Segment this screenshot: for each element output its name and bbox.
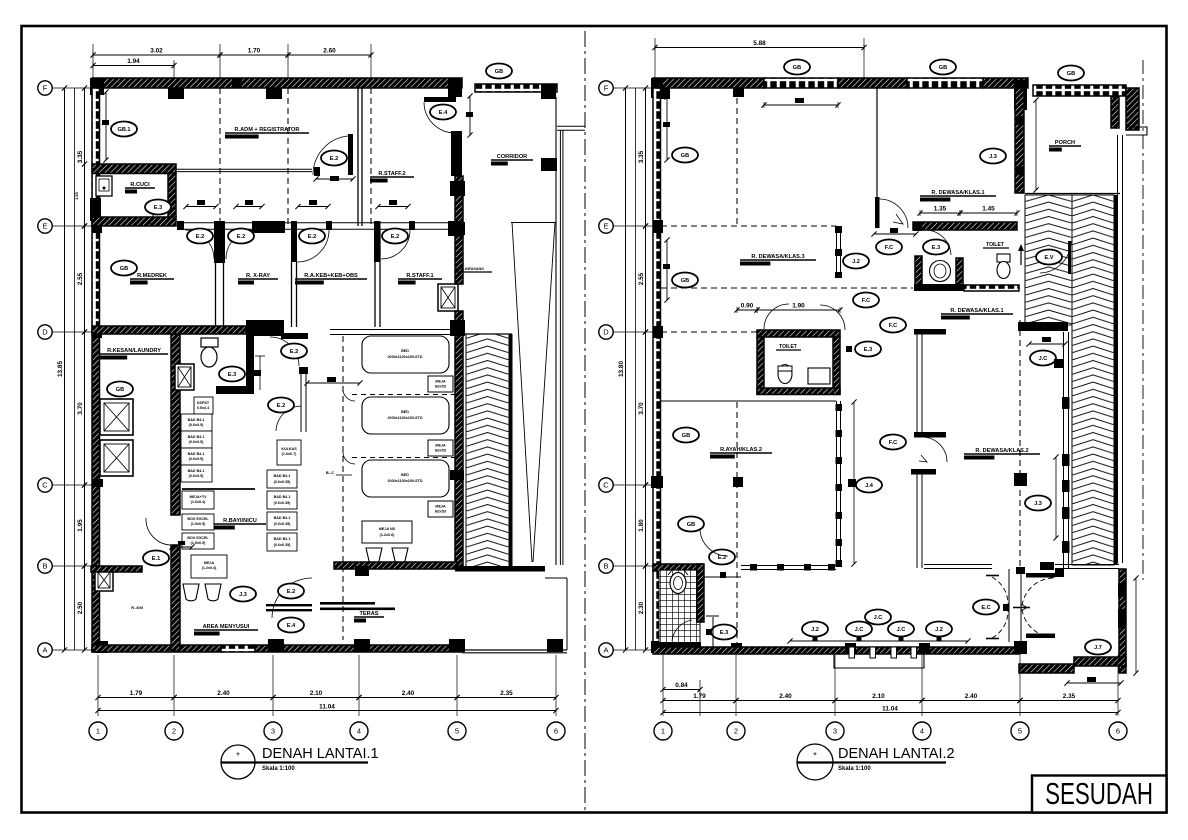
- svg-text:(0.6x0.5): (0.6x0.5): [189, 423, 205, 427]
- p2 dashed col 2: [736, 88, 738, 226]
- tag F.C: [880, 318, 906, 333]
- tag F.C: [853, 293, 879, 308]
- room label AREA MENYUSUI: [194, 624, 258, 636]
- room label R.STAFF.1: [398, 273, 442, 285]
- room label R. DEWASA-KLAS2: [964, 448, 1040, 460]
- svg-text:J.7: J.7: [1094, 645, 1102, 651]
- p2 bottom col 3: [919, 643, 930, 653]
- svg-text:2000x1100x200-STD: 2000x1100x200-STD: [387, 355, 422, 359]
- tag E.2: [299, 229, 325, 244]
- tag E.2: [268, 398, 294, 413]
- door arc hall: [820, 305, 845, 330]
- cabinet MEJA+TV: [182, 491, 214, 509]
- column: [355, 566, 369, 576]
- side table 2: [428, 440, 453, 456]
- p2 top wall win1: [764, 78, 838, 88]
- svg-text:J.C: J.C: [874, 615, 883, 621]
- tag J.C: [846, 622, 872, 637]
- tag J.4: [856, 478, 882, 493]
- WC right wall: [246, 332, 254, 392]
- partition block h: [750, 564, 757, 571]
- p2 bottom right wall low: [1019, 664, 1074, 673]
- svg-text:R.KESAN/LAUNDRY: R.KESAN/LAUNDRY: [107, 348, 161, 354]
- toilet2 bottom wall: [964, 285, 1019, 291]
- porch step outline: [834, 654, 924, 668]
- column corridor right: [541, 158, 557, 171]
- jamb: [177, 221, 184, 230]
- svg-text:2000x1100x200-STD: 2000x1100x200-STD: [387, 479, 422, 483]
- svg-text:(0.6x0.5): (0.6x0.5): [189, 440, 205, 444]
- svg-text:B: B: [603, 562, 608, 571]
- svg-text:2.60: 2.60: [323, 48, 336, 55]
- tag GB: [784, 60, 810, 75]
- leader row F: [52, 87, 92, 89]
- svg-text:GB.1: GB.1: [117, 127, 130, 133]
- tag E.V: [1036, 250, 1062, 265]
- svg-text:2.35: 2.35: [500, 690, 513, 697]
- tag E.2: [709, 550, 735, 565]
- toilet3 right wall: [833, 337, 840, 394]
- row B stub wall: [91, 566, 142, 572]
- svg-text:0.90: 0.90: [741, 303, 754, 310]
- leader row D: [52, 331, 92, 333]
- mid partition cap: [299, 367, 308, 374]
- svg-text:(1.5x0.5): (1.5x0.5): [191, 541, 207, 545]
- svg-text:R. DEWASA/KLAS.3: R. DEWASA/KLAS.3: [751, 254, 804, 260]
- jamb partition1: [214, 221, 225, 232]
- svg-text:D: D: [42, 328, 48, 337]
- elevator shaft 1: [100, 399, 133, 435]
- curtain dashed 1: [352, 394, 455, 396]
- stair bottom wall: [455, 566, 545, 572]
- svg-text:E.2: E.2: [277, 403, 285, 409]
- p2 dashed row D: [661, 331, 757, 333]
- p2 dim ext: [662, 655, 664, 716]
- basin 1: [183, 584, 199, 601]
- curtain arc 1: [343, 389, 355, 401]
- door between chevron panels: [1040, 241, 1071, 274]
- dimension p2 bottom 1.79: [660, 693, 738, 703]
- svg-text:3.02: 3.02: [150, 48, 163, 55]
- cabinet DSPST: [194, 397, 213, 414]
- dim right of E.4: [466, 93, 473, 137]
- partition block h: [777, 564, 784, 571]
- grid bubble D: [38, 325, 52, 339]
- tag J.3: [980, 149, 1006, 164]
- tag F.C: [876, 240, 902, 255]
- svg-text:J.2: J.2: [811, 627, 819, 633]
- p2 bottom right wall high: [1074, 657, 1126, 666]
- svg-text:B2x53: B2x53: [435, 385, 446, 389]
- dimension p2 dim 3.70: [638, 329, 648, 487]
- svg-text:GB: GB: [682, 433, 690, 439]
- tag E.C: [973, 600, 999, 615]
- vert dim right 2.05: [1133, 575, 1138, 675]
- ramp top line: [511, 222, 556, 224]
- room label R.BAYI/NICU: [214, 518, 266, 530]
- tag GB: [930, 60, 956, 75]
- p2 corner col: [651, 78, 663, 98]
- tag GB: [486, 64, 512, 79]
- p2 col b: [733, 88, 744, 97]
- dim extension: [97, 655, 99, 716]
- svg-text:F: F: [604, 84, 609, 93]
- svg-text:GB: GB: [939, 65, 947, 71]
- svg-text:13.85: 13.85: [57, 361, 64, 377]
- left wall column row E: [92, 220, 102, 233]
- svg-text:R.STAFF.2: R.STAFF.2: [378, 171, 405, 177]
- door arc row B: [146, 518, 171, 545]
- vertical dim GB room p2: [663, 94, 670, 162]
- p2 dashed col5: [1019, 320, 1021, 568]
- porch corner block: [1126, 88, 1139, 130]
- svg-text:R.CUCI: R.CUCI: [130, 182, 150, 188]
- door jamb block right: [1055, 569, 1064, 577]
- svg-text:BAD B4.1: BAD B4.1: [274, 537, 291, 541]
- side table 3: [428, 501, 453, 517]
- svg-text:J.2: J.2: [935, 627, 943, 633]
- svg-text:B.-C: B.-C: [326, 470, 334, 475]
- leader row A: [52, 649, 92, 651]
- svg-text:1.90: 1.90: [792, 303, 805, 310]
- svg-text:J.3: J.3: [989, 154, 997, 160]
- p2 leader B: [613, 565, 653, 567]
- svg-text:BED: BED: [401, 349, 409, 353]
- grid bubble E: [38, 219, 52, 233]
- svg-text:DENAH LANTAI.2: DENAH LANTAI.2: [838, 746, 955, 762]
- grid bubble 2: [165, 722, 183, 740]
- svg-text:R.-KM: R.-KM: [131, 605, 143, 610]
- svg-text:R.ADM + REGISTRATOR: R.ADM + REGISTRATOR: [235, 127, 300, 133]
- svg-text:C: C: [603, 481, 609, 490]
- svg-text:1.95: 1.95: [77, 519, 84, 532]
- grid bubble 4: [350, 722, 368, 740]
- p2 wall x917 upper: [916, 333, 918, 432]
- svg-text:2: 2: [172, 727, 176, 736]
- svg-text:(0.6x0.35): (0.6x0.35): [274, 480, 292, 484]
- p2 dim line mid: [635, 88, 637, 650]
- svg-text:1.45: 1.45: [982, 206, 995, 213]
- grid bubble 2: [727, 722, 745, 740]
- tag E.1: [143, 551, 169, 566]
- p2 dashed row E: [661, 225, 836, 227]
- p2 partition y566: [741, 565, 836, 567]
- dim line mid left: [74, 88, 76, 650]
- cabinet BAD B4.4: [181, 465, 212, 482]
- nurse table MEJA NS: [362, 521, 412, 543]
- room label R.MEDREK: [130, 273, 174, 285]
- dim extension: [173, 655, 175, 716]
- basin toilet1: [930, 261, 951, 282]
- svg-text:13.80: 13.80: [618, 361, 625, 377]
- svg-text:R. X-RAY: R. X-RAY: [246, 273, 270, 279]
- svg-text:2.55: 2.55: [77, 272, 84, 285]
- exit arrow right wall: [1018, 244, 1024, 265]
- p2 room top line: [661, 400, 836, 402]
- partition block: [836, 539, 843, 546]
- bottom vent band: [221, 645, 255, 652]
- p2 partition x836: [836, 401, 838, 567]
- svg-text:PORCH: PORCH: [1055, 140, 1075, 146]
- p2 dashed col 2 lower: [736, 402, 738, 647]
- elevator shaft 2: [100, 440, 133, 476]
- dimension left dim 3.70: [77, 329, 87, 487]
- WC toilet3: [778, 365, 792, 384]
- svg-text:+: +: [236, 751, 240, 758]
- svg-text:TOILET: TOILET: [779, 344, 797, 350]
- svg-text:F: F: [43, 84, 48, 93]
- dimension p2 dim 1.80: [638, 482, 648, 568]
- hinge block: [846, 346, 852, 352]
- room label R.KESAN/LAUNDRY: [100, 348, 168, 360]
- tag E.3: [855, 342, 881, 357]
- p2 left wall lower b: [653, 485, 661, 652]
- tag E.3: [923, 240, 949, 255]
- room label PORCH: [1049, 140, 1081, 152]
- tag E.2: [228, 229, 254, 244]
- svg-text:(0.6x0.35): (0.6x0.35): [274, 522, 292, 526]
- svg-text:MEJA: MEJA: [204, 561, 215, 565]
- p2 left col row C: [651, 476, 663, 488]
- toilet1 wall L: [915, 256, 922, 286]
- curtain dashed 2: [352, 457, 455, 459]
- tag E.3: [145, 200, 171, 215]
- cabinet BOX EXCEL 2: [182, 533, 214, 549]
- chevron panel left p2: [1025, 195, 1072, 325]
- svg-text:BAD B4.1: BAD B4.1: [274, 516, 291, 520]
- p2 dim line inner: [645, 88, 647, 650]
- curtain arc 2: [343, 452, 355, 464]
- svg-text:2: 2: [734, 727, 738, 736]
- dimension bottom 2.40: [171, 690, 275, 700]
- p2 dim ext: [921, 655, 923, 716]
- dim left of porch: [1033, 97, 1038, 192]
- R.CUCI top wall: [92, 164, 176, 174]
- row E corridor wall: [177, 222, 455, 224]
- dimension bottom 1.79: [95, 690, 176, 700]
- dimension left dim 1.95: [77, 482, 87, 568]
- dimension small dim: [169, 544, 194, 549]
- svg-text:E.3: E.3: [864, 347, 872, 353]
- grid dashed line col c: [370, 88, 372, 226]
- svg-text:E.2: E.2: [287, 589, 295, 595]
- svg-text:1: 1: [661, 727, 665, 736]
- room label CORRIDOR: [491, 154, 533, 166]
- svg-text:BAD B4.1: BAD B4.1: [274, 474, 291, 478]
- dimension left dim 2.50: [77, 563, 87, 652]
- grid bubble A: [38, 643, 52, 657]
- svg-text:CAB.INFASANG: CAB.INFASANG: [456, 267, 484, 271]
- svg-text:J.2: J.2: [852, 259, 860, 265]
- p2 col: [659, 88, 670, 99]
- svg-text:1.35: 1.35: [934, 206, 947, 213]
- svg-text:BAD B4.1: BAD B4.1: [274, 495, 291, 499]
- WC bottom wall: [216, 386, 254, 394]
- chevron panel right p2: [1072, 195, 1114, 565]
- grid bubble 5: [448, 722, 466, 740]
- win block: [1062, 454, 1070, 466]
- basin 2: [205, 584, 221, 601]
- svg-text:J.C: J.C: [897, 627, 906, 633]
- tag GB: [678, 517, 704, 532]
- shower top wall: [653, 564, 703, 571]
- svg-text:2.40: 2.40: [965, 693, 978, 700]
- dimension p2 bottom total: [660, 710, 1120, 715]
- svg-text:E.4: E.4: [287, 623, 296, 629]
- grid bubble E: [599, 219, 613, 233]
- dimension p2 dim 3.35: [638, 85, 648, 228]
- p2 top wall a: [653, 78, 764, 88]
- exterior wall bottom a: [92, 645, 221, 652]
- dim extension: [272, 655, 274, 716]
- svg-text:MEJA: MEJA: [435, 505, 446, 509]
- p2 top wall b: [838, 78, 907, 88]
- dimension top 3.02: [90, 48, 222, 59]
- partition block: [836, 430, 843, 437]
- dim extension: [358, 655, 360, 716]
- dimension p2 window dim: [787, 638, 970, 643]
- svg-text:3: 3: [271, 727, 275, 736]
- jamb: [409, 221, 415, 230]
- stair band left edge wall: [510, 334, 513, 569]
- column in wall: [232, 78, 242, 88]
- door arc area menyusui: [272, 578, 312, 618]
- room label R. X-RAY: [238, 273, 278, 285]
- tag E.3: [711, 625, 737, 640]
- svg-text:J.3: J.3: [1034, 501, 1042, 507]
- svg-text:(0.6x0.5): (0.6x0.5): [189, 457, 205, 461]
- exterior wall left lower: [92, 332, 100, 652]
- dimension p2 small dim: [871, 231, 918, 236]
- cabinet BOX EXCEL 1: [182, 514, 214, 530]
- double swing door bowtie: [986, 569, 1053, 642]
- p2 dim ext: [834, 655, 836, 716]
- dim extension: [456, 655, 458, 716]
- partition block h: [828, 564, 835, 571]
- svg-text:2.50: 2.50: [77, 601, 84, 614]
- dimension door3 dim: [295, 204, 330, 209]
- wall below left chevron: [1018, 322, 1068, 331]
- dimension p2 dim 2.30: [638, 563, 648, 652]
- dimension top 2.60: [285, 48, 373, 59]
- p2 wall cap top: [914, 329, 946, 335]
- canopy line top b: [557, 129, 585, 131]
- fridge KULKAS: [277, 440, 301, 465]
- grid bubble C: [38, 478, 52, 492]
- leader row B: [52, 565, 92, 567]
- dimension left dim 2.55: [77, 223, 87, 334]
- partition block: [836, 512, 843, 519]
- toilet1 bottom: [914, 284, 964, 291]
- column row E right: [448, 221, 462, 236]
- svg-text:3.35: 3.35: [638, 150, 645, 163]
- grid bubble 3: [826, 722, 844, 740]
- svg-text:E.2: E.2: [330, 156, 338, 162]
- svg-text:6: 6: [1116, 727, 1120, 736]
- cabinet BAD B4 mid 4: [267, 533, 297, 551]
- tag E.4: [278, 618, 304, 633]
- svg-text:R.BAYI/NICU: R.BAYI/NICU: [223, 518, 257, 524]
- partition R.ADM bottom: [99, 168, 312, 170]
- column top-left corner: [90, 78, 104, 95]
- small dim right of WC: [254, 356, 265, 390]
- terrace edge bottom: [462, 649, 567, 651]
- svg-text:+: +: [813, 751, 817, 758]
- svg-text:C: C: [42, 481, 48, 490]
- toilet3 bottom wall: [757, 388, 840, 395]
- svg-text:J.4: J.4: [865, 483, 874, 489]
- dimension door4 dim: [375, 204, 410, 209]
- svg-text:1.79: 1.79: [693, 693, 706, 700]
- svg-text:6: 6: [554, 727, 558, 736]
- p2 bottom wall: [653, 647, 1020, 654]
- porch top wall: [1033, 85, 1126, 96]
- cw block a: [835, 226, 842, 233]
- svg-text:E.2: E.2: [196, 234, 204, 240]
- tag E.2: [187, 229, 213, 244]
- partition block: [836, 404, 843, 411]
- grid bubble B: [38, 559, 52, 573]
- svg-text:F.C: F.C: [862, 298, 870, 304]
- svg-text:BOX EXCEL: BOX EXCEL: [187, 536, 209, 540]
- svg-text:5: 5: [1018, 727, 1022, 736]
- col right room: [1040, 562, 1054, 570]
- column right wall d: [450, 470, 464, 480]
- p2 bottom col 2: [845, 643, 856, 653]
- sink toilet3: [808, 368, 830, 384]
- svg-text:J.C: J.C: [855, 627, 864, 633]
- door E.4: [424, 97, 456, 133]
- WC right toilet: [997, 254, 1010, 279]
- svg-text:B2x53: B2x53: [435, 449, 446, 453]
- svg-text:GB: GB: [116, 387, 124, 393]
- dimension bottom total: [95, 708, 558, 713]
- tag J.2: [843, 254, 869, 269]
- svg-text:R.AYAH/KLAS.2: R.AYAH/KLAS.2: [720, 447, 762, 453]
- p2 dim line outer: [625, 88, 627, 650]
- toilet block col: [913, 222, 922, 231]
- porch right wall: [1111, 97, 1119, 128]
- grid bubble 1: [654, 722, 672, 740]
- svg-text:BED: BED: [401, 410, 409, 414]
- ramp V lines: [512, 222, 555, 562]
- corridor top wall: [475, 84, 557, 92]
- cabinet BAD B4.3: [181, 448, 212, 465]
- dimension bottom 2.35: [454, 690, 558, 700]
- svg-text:BAD B4.1: BAD B4.1: [188, 452, 205, 456]
- row D big column: [246, 320, 284, 336]
- p2 wall x917 lower: [916, 474, 918, 568]
- corridor right wall line: [555, 97, 557, 565]
- tag GB: [672, 148, 698, 163]
- hinge block E.2: [720, 572, 726, 578]
- svg-text:(1.2x0.6): (1.2x0.6): [380, 533, 396, 537]
- win block r1: [1118, 583, 1126, 597]
- door arc room1: [185, 230, 214, 259]
- tag E.2: [382, 229, 408, 244]
- win block: [1062, 397, 1070, 409]
- svg-text:2.30: 2.30: [638, 601, 645, 614]
- svg-text:(0.6x0.5): (0.6x0.5): [189, 474, 205, 478]
- svg-text:(1.6x0.4): (1.6x0.4): [191, 500, 207, 504]
- svg-text:BOX EXCEL: BOX EXCEL: [187, 517, 209, 521]
- p2 partition top-mid: [876, 88, 878, 197]
- tag GB: [107, 382, 133, 397]
- R.CUCI bottom wall: [92, 217, 176, 226]
- dimension top dim 5.88: [652, 40, 866, 51]
- svg-text:3.35: 3.35: [77, 150, 84, 163]
- door arc toilet3: [764, 304, 789, 329]
